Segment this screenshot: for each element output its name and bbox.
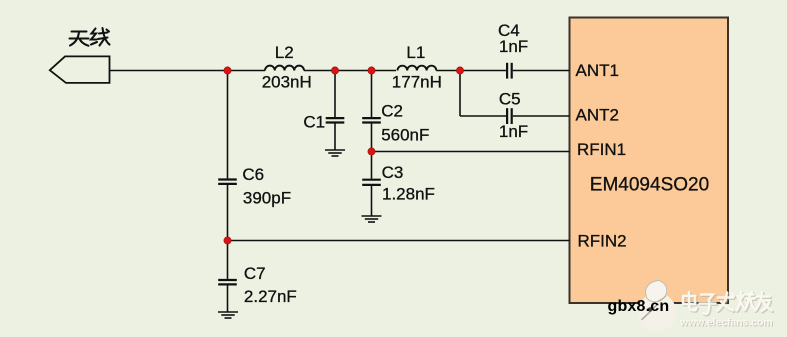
svg-text:ANT2: ANT2	[576, 106, 619, 125]
label C7	[244, 264, 266, 283]
wire node C down to C2	[371, 71, 373, 118]
wire RFIN1 node E to pin	[372, 151, 570, 153]
wire antenna to node A	[110, 70, 228, 72]
svg-text:gbx8.cn: gbx8.cn	[608, 298, 670, 315]
wire C6 to node F	[227, 185, 229, 241]
node C junction	[368, 67, 375, 74]
wire C3 to ground	[371, 186, 373, 216]
wire L2 to node C	[304, 70, 372, 72]
wire C7 to ground	[227, 285, 229, 311]
svg-text:ANT1: ANT1	[576, 61, 619, 80]
wire node A down to C6	[227, 71, 229, 179]
wire node A to L2	[228, 70, 266, 72]
watermark www.elecfans.com	[679, 318, 774, 330]
pin label ANT2	[576, 106, 619, 125]
value 1nF C4	[499, 37, 528, 56]
wire L1 to node D	[436, 70, 460, 72]
svg-text:C2: C2	[381, 101, 403, 120]
svg-text:L2: L2	[275, 43, 294, 62]
svg-text:1nF: 1nF	[499, 122, 528, 141]
watermark text ybx8.cn	[608, 298, 670, 315]
capacitor C7	[218, 280, 237, 284]
capacitor C2	[362, 118, 381, 122]
wire node D down to ANT2 line	[460, 71, 506, 117]
svg-text:1.28nF: 1.28nF	[382, 185, 435, 204]
wire node F down to C7	[227, 241, 229, 279]
svg-text:1nF: 1nF	[499, 37, 528, 56]
value 177nH	[392, 72, 442, 91]
label L2	[275, 43, 294, 62]
wire node E down to C3	[371, 152, 373, 179]
capacitor C1	[326, 118, 345, 122]
inductor L2	[265, 66, 304, 71]
capacitor C4	[507, 63, 512, 79]
value 560nF	[381, 126, 429, 145]
ground of C7	[218, 312, 238, 318]
antenna symbol	[50, 56, 110, 83]
node E junction	[368, 148, 375, 155]
watermark logo circle	[638, 280, 677, 332]
svg-text:RFIN2: RFIN2	[578, 232, 627, 251]
svg-text:203nH: 203nH	[262, 72, 312, 91]
node B junction	[331, 67, 338, 74]
wire node C to L1	[372, 70, 397, 72]
pin label ANT1	[576, 61, 619, 80]
label C2	[381, 101, 403, 120]
label C6	[242, 165, 264, 184]
value 2.27nF	[244, 287, 297, 306]
wire C1 to ground	[334, 124, 336, 150]
wire C5 to ANT2 pin	[513, 115, 570, 117]
wire C2 to node E	[371, 124, 373, 152]
wire node B down to C1	[334, 71, 336, 118]
label C1	[303, 112, 325, 131]
svg-text:RFIN1: RFIN1	[577, 140, 626, 159]
watermark 电子发烧友	[683, 292, 773, 315]
svg-text:2.27nF: 2.27nF	[244, 287, 297, 306]
IC U1 EM4094SO20 body	[570, 18, 729, 304]
value 1.28nF	[382, 185, 435, 204]
capacitor C3	[362, 180, 381, 185]
label C3	[382, 163, 404, 182]
svg-text:EM4094SO20: EM4094SO20	[590, 175, 709, 196]
label L1	[406, 43, 425, 62]
capacitor C5	[507, 108, 512, 124]
ground of C3	[362, 216, 382, 222]
svg-text:L1: L1	[406, 43, 425, 62]
svg-text:www.elecfans.com: www.elecfans.com	[679, 318, 773, 329]
pin label RFIN1	[577, 140, 626, 159]
svg-text:C3: C3	[382, 163, 404, 182]
wire C4 to ANT1 pin	[513, 70, 570, 72]
value 1nF C5	[499, 122, 528, 141]
part number EM4094SO20	[590, 175, 709, 196]
value 203nH	[262, 72, 312, 91]
node D junction	[456, 67, 463, 74]
node F junction	[224, 237, 231, 244]
svg-text:C1: C1	[303, 112, 325, 131]
wire RFIN2 node F to pin	[228, 240, 570, 242]
label C5	[499, 89, 521, 108]
node A junction	[224, 67, 231, 74]
label 天线	[70, 28, 110, 46]
svg-text:C7: C7	[244, 264, 266, 283]
inductor L1	[398, 66, 437, 71]
ground of C1	[325, 150, 345, 156]
svg-text:390pF: 390pF	[243, 189, 291, 208]
value 390pF	[243, 189, 291, 208]
svg-text:177nH: 177nH	[392, 72, 442, 91]
label C4	[498, 21, 520, 40]
svg-text:C5: C5	[499, 89, 521, 108]
capacitor C6	[218, 180, 237, 184]
pin label RFIN2	[578, 232, 627, 251]
svg-text:560nF: 560nF	[381, 126, 429, 145]
svg-text:C6: C6	[242, 165, 264, 184]
wire node D to C4	[460, 70, 506, 72]
